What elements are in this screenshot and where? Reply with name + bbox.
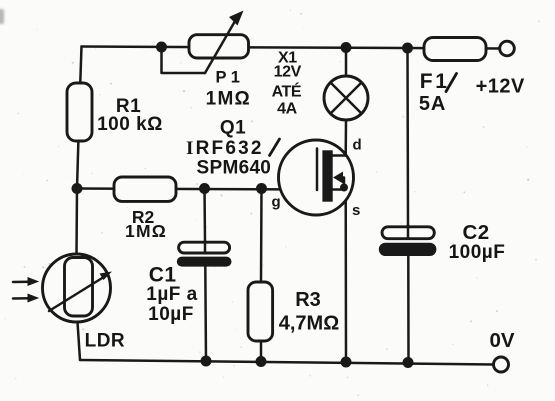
capacitor C2 top plate (382, 225, 434, 239)
svg-text:ATÉ: ATÉ (272, 82, 302, 101)
pin label d (353, 137, 362, 154)
svg-text:10µF: 10µF (148, 304, 194, 325)
wire C1 branch lower (204, 266, 207, 361)
potentiometer P1 arrow (205, 11, 244, 74)
transistor Q1 circle (279, 140, 354, 215)
wire gate line (79, 189, 317, 190)
transistor Q1 drain lead (333, 154, 346, 157)
transistor Q1 body arrow (333, 172, 344, 190)
wire LDR bottom to bottom rail (78, 322, 81, 360)
transistor Q1 channel bar (322, 150, 332, 201)
label R2 (132, 207, 155, 227)
wire bottom rail (80, 360, 494, 365)
LDR circle (43, 254, 111, 322)
value label 1uF a (146, 284, 197, 305)
node bottom rail / C1 (201, 356, 212, 367)
svg-text:1MΩ: 1MΩ (125, 221, 167, 241)
svg-text:1µF a: 1µF a (146, 284, 197, 305)
pin label s (352, 202, 360, 219)
wire C1 branch upper (203, 189, 206, 242)
svg-text:5A: 5A (419, 93, 446, 115)
wire source to bottom rail (344, 190, 347, 363)
label F1/ (420, 70, 457, 93)
svg-text:1MΩ: 1MΩ (206, 89, 251, 110)
label R3 (295, 289, 321, 311)
capacitor C1 bottom plate (177, 257, 232, 267)
label +12V (476, 76, 525, 98)
value label 4,7MOhm (279, 313, 340, 335)
fuse F1 (424, 38, 486, 61)
label C1 (149, 264, 177, 287)
LDR light arrow 1 (13, 277, 39, 286)
node body-source junction (340, 184, 348, 192)
transistor Q1 source lead (333, 188, 346, 191)
lamp X1 (324, 76, 368, 120)
svg-text:d: d (353, 137, 362, 154)
node gate line / C1 (199, 183, 210, 194)
node bottom rail / C2 (403, 357, 414, 368)
value label 100uF (449, 242, 506, 263)
transistor Q1 gate plate (316, 149, 319, 191)
svg-text:SPM640: SPM640 (197, 158, 272, 179)
node bottom rail / R3 (256, 356, 267, 367)
svg-text:100 kΩ: 100 kΩ (97, 114, 163, 135)
potentiometer P1 body (189, 35, 249, 58)
terminal 0V (494, 357, 509, 372)
wire lamp to drain (344, 120, 347, 156)
value label 1MOhm (R2) (125, 221, 167, 241)
svg-text:IRF632: IRF632 (186, 138, 264, 159)
value label 4A (277, 101, 297, 118)
svg-text:P 1: P 1 (215, 69, 239, 87)
svg-text:12V: 12V (274, 64, 302, 81)
label R1 (116, 96, 141, 117)
value label 100 kOhm (97, 114, 163, 135)
label 0V (489, 329, 514, 352)
LDR body (65, 258, 93, 317)
svg-text:g: g (272, 194, 281, 211)
value label 1MOhm (P1) (206, 89, 251, 110)
value label 5A (419, 93, 446, 115)
pin label g (272, 194, 281, 211)
wire lamp branch upper (345, 48, 348, 77)
node left rail / gate line (72, 183, 83, 194)
svg-text:F1: F1 (420, 70, 450, 93)
label C2 (463, 221, 490, 244)
node top rail / C2 branch (402, 43, 413, 54)
wire C2 branch upper (406, 48, 409, 225)
svg-text:s: s (352, 202, 360, 219)
wire R3 branch upper (260, 189, 263, 283)
value label SPM640 (197, 158, 272, 179)
LDR light arrow 2 (13, 294, 39, 303)
label X1 (278, 50, 297, 67)
svg-text:4A: 4A (277, 101, 297, 118)
wire P1 wiper loop (162, 47, 206, 73)
node top rail / lamp branch (341, 42, 352, 53)
svg-text:+12V: +12V (476, 76, 525, 98)
capacitor C1 top plate (179, 241, 230, 253)
capacitor C2 bottom plate (379, 243, 437, 256)
resistor R3 (248, 282, 273, 341)
value label IRF632 / (186, 138, 280, 159)
wire R3 branch lower (260, 341, 263, 362)
svg-text:Q1: Q1 (220, 118, 246, 139)
terminal +12V (500, 41, 515, 56)
label Q1 (220, 118, 246, 139)
LDR variable arrow (49, 272, 112, 312)
edge scan mark (0, 9, 4, 24)
svg-text:LDR: LDR (85, 331, 126, 352)
wire left rail (top corner to LDR top) (77, 47, 82, 255)
node gate line / R3 (256, 183, 267, 194)
wire C2 branch lower (407, 256, 410, 363)
svg-text:C2: C2 (463, 221, 490, 244)
value label 12V (274, 64, 302, 81)
svg-text:4,7MΩ: 4,7MΩ (279, 313, 340, 335)
node top rail / P1 loop (156, 42, 167, 53)
node bottom rail / source (341, 357, 352, 368)
svg-text:R3: R3 (295, 289, 321, 311)
value label 10uF (148, 304, 194, 325)
value label ATE (272, 82, 302, 101)
label LDR (85, 331, 126, 352)
resistor R2 (114, 177, 176, 201)
wire top rail (82, 47, 501, 49)
resistor R1 (67, 83, 92, 141)
label P1 (215, 69, 239, 87)
svg-text:0V: 0V (489, 329, 514, 352)
svg-text:100µF: 100µF (449, 242, 506, 263)
